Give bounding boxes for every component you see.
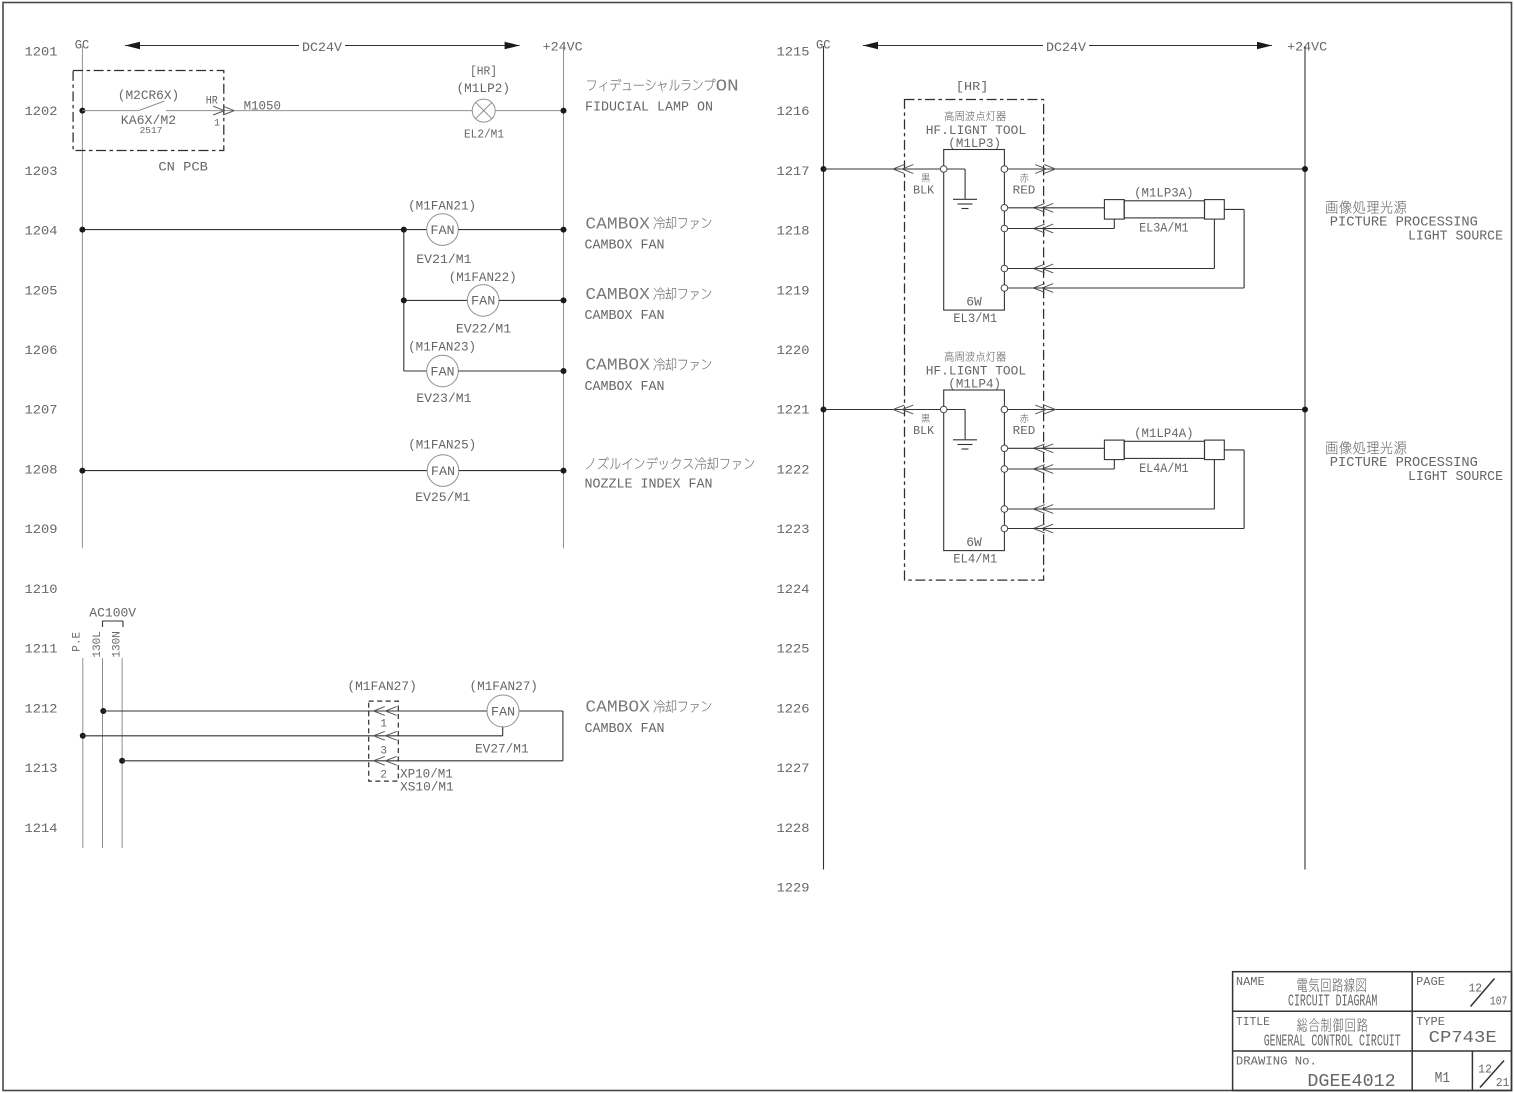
svg-text:1224: 1224 (777, 582, 810, 597)
svg-text:1216: 1216 (777, 104, 810, 119)
svg-text:EL4/M1: EL4/M1 (953, 553, 997, 567)
svg-text:3: 3 (380, 745, 387, 757)
svg-text:1228: 1228 (777, 821, 810, 836)
svg-text:6W: 6W (966, 294, 982, 309)
svg-text:(M2CR6X): (M2CR6X) (118, 88, 179, 103)
svg-text:1220: 1220 (777, 343, 810, 358)
svg-text:CIRCUIT DIAGRAM: CIRCUIT DIAGRAM (1288, 993, 1377, 1012)
svg-text:1226: 1226 (777, 701, 810, 716)
svg-text:(M1FAN23): (M1FAN23) (408, 339, 476, 354)
svg-text:EL2/M1: EL2/M1 (464, 129, 504, 142)
svg-text:PICTURE PROCESSING: PICTURE PROCESSING (1330, 215, 1478, 230)
svg-text:BLK: BLK (913, 424, 935, 438)
svg-text:EV23/M1: EV23/M1 (416, 391, 471, 406)
svg-text:21: 21 (1496, 1077, 1510, 1090)
svg-text:(M1LP3A): (M1LP3A) (1134, 186, 1194, 201)
svg-text:(M1FAN21): (M1FAN21) (408, 198, 476, 213)
svg-text:M1: M1 (1435, 1070, 1451, 1087)
svg-text:1211: 1211 (25, 642, 58, 657)
svg-text:AC100V: AC100V (89, 606, 136, 621)
svg-text:[HR]: [HR] (470, 65, 497, 78)
svg-text:1: 1 (214, 119, 220, 130)
svg-text:CAMBOX: CAMBOX (585, 356, 650, 375)
svg-text:1208: 1208 (25, 462, 58, 477)
svg-text:CAMBOX FAN: CAMBOX FAN (585, 237, 665, 253)
svg-text:1: 1 (380, 719, 387, 731)
svg-text:1217: 1217 (777, 164, 810, 179)
svg-text:2: 2 (380, 769, 387, 781)
svg-text:(M1LP3): (M1LP3) (948, 136, 1001, 151)
svg-text:NOZZLE INDEX FAN: NOZZLE INDEX FAN (585, 477, 713, 493)
svg-text:RED: RED (1013, 183, 1036, 197)
svg-text:DC24V: DC24V (302, 40, 342, 55)
svg-text:1212: 1212 (25, 701, 58, 716)
svg-text:EV27/M1: EV27/M1 (475, 742, 529, 757)
svg-text:(M1LP4): (M1LP4) (948, 377, 1001, 392)
svg-text:1214: 1214 (25, 821, 58, 836)
svg-text:HR: HR (206, 96, 218, 108)
svg-text:CAMBOX: CAMBOX (585, 698, 650, 717)
svg-text:1225: 1225 (777, 642, 810, 657)
svg-text:PAGE: PAGE (1416, 975, 1445, 989)
svg-text:CAMBOX: CAMBOX (585, 285, 650, 304)
svg-text:1202: 1202 (25, 104, 58, 119)
svg-text:1204: 1204 (25, 224, 58, 239)
svg-text:2517: 2517 (140, 125, 163, 136)
svg-text:(M1FAN25): (M1FAN25) (408, 438, 476, 453)
svg-text:FAN: FAN (491, 704, 515, 719)
svg-text:1218: 1218 (777, 224, 810, 239)
svg-text:1206: 1206 (25, 343, 58, 358)
svg-text:DGEE4012: DGEE4012 (1307, 1072, 1395, 1092)
svg-text:TYPE: TYPE (1416, 1015, 1445, 1029)
svg-text:EL3/M1: EL3/M1 (953, 312, 997, 326)
svg-text:1221: 1221 (777, 403, 810, 418)
svg-text:[HR]: [HR] (956, 81, 989, 94)
svg-text:FAN: FAN (431, 464, 455, 479)
svg-text:EV21/M1: EV21/M1 (416, 252, 471, 267)
svg-text:CN PCB: CN PCB (158, 159, 208, 174)
svg-text:(M1LP2): (M1LP2) (457, 81, 511, 96)
svg-text:BLK: BLK (913, 183, 935, 197)
svg-text:(M1LP4A): (M1LP4A) (1134, 426, 1194, 441)
svg-text:DRAWING No.: DRAWING No. (1236, 1055, 1317, 1069)
svg-text:PICTURE PROCESSING: PICTURE PROCESSING (1330, 456, 1478, 471)
svg-text:1213: 1213 (25, 761, 58, 776)
svg-text:FAN: FAN (430, 364, 454, 379)
svg-text:P.E: P.E (72, 631, 84, 651)
svg-text:6W: 6W (966, 535, 982, 550)
svg-text:+24VC: +24VC (1287, 40, 1327, 55)
svg-text:1219: 1219 (777, 283, 810, 298)
svg-text:1229: 1229 (777, 881, 810, 896)
svg-text:FAN: FAN (471, 294, 495, 309)
svg-text:ON: ON (716, 77, 739, 96)
svg-text:EV25/M1: EV25/M1 (415, 490, 470, 505)
svg-text:CAMBOX FAN: CAMBOX FAN (585, 721, 665, 737)
svg-text:1223: 1223 (777, 522, 810, 537)
svg-text:12: 12 (1469, 983, 1483, 996)
svg-text:LIGHT SOURCE: LIGHT SOURCE (1408, 229, 1503, 244)
svg-text:1210: 1210 (25, 582, 58, 597)
svg-text:CAMBOX: CAMBOX (585, 214, 650, 233)
svg-text:(M1FAN27): (M1FAN27) (470, 679, 538, 694)
svg-text:(M1FAN27): (M1FAN27) (347, 679, 416, 694)
svg-text:DC24V: DC24V (1046, 40, 1086, 55)
svg-text:FIDUCIAL LAMP ON: FIDUCIAL LAMP ON (585, 99, 713, 115)
svg-text:1207: 1207 (25, 403, 58, 418)
svg-text:12: 12 (1478, 1063, 1492, 1076)
svg-text:CAMBOX FAN: CAMBOX FAN (585, 379, 665, 395)
svg-text:+24VC: +24VC (543, 40, 583, 55)
svg-text:1227: 1227 (777, 761, 810, 776)
svg-text:1215: 1215 (777, 44, 810, 59)
svg-text:107: 107 (1490, 995, 1508, 1008)
svg-text:1222: 1222 (777, 462, 810, 477)
svg-text:1201: 1201 (25, 44, 58, 59)
svg-text:GENERAL CONTROL CIRCUIT: GENERAL CONTROL CIRCUIT (1264, 1033, 1401, 1052)
svg-text:TITLE: TITLE (1236, 1015, 1270, 1029)
svg-text:FAN: FAN (430, 223, 454, 238)
svg-text:130L: 130L (92, 631, 104, 657)
svg-text:EL4A/M1: EL4A/M1 (1139, 462, 1189, 476)
svg-text:(M1FAN22): (M1FAN22) (449, 270, 517, 285)
svg-text:1205: 1205 (25, 283, 58, 298)
svg-text:EV22/M1: EV22/M1 (456, 322, 511, 337)
svg-text:LIGHT SOURCE: LIGHT SOURCE (1408, 470, 1503, 485)
svg-text:RED: RED (1013, 424, 1036, 438)
svg-text:1203: 1203 (25, 164, 58, 179)
svg-text:NAME: NAME (1236, 975, 1265, 989)
svg-text:EL3A/M1: EL3A/M1 (1139, 221, 1189, 235)
svg-text:130N: 130N (111, 631, 123, 657)
svg-text:XS10/M1: XS10/M1 (400, 779, 454, 794)
svg-text:1209: 1209 (25, 522, 58, 537)
svg-text:CAMBOX FAN: CAMBOX FAN (585, 308, 665, 324)
svg-text:CP743E: CP743E (1429, 1029, 1497, 1048)
